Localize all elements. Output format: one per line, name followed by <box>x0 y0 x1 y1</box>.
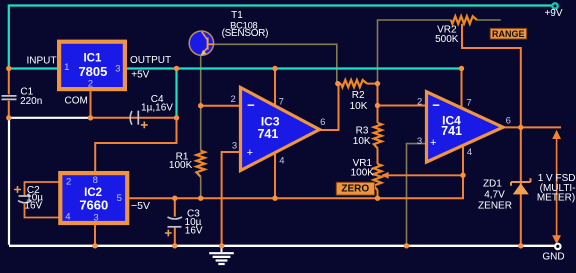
svg-text:3: 3 <box>232 141 237 152</box>
svg-text:2: 2 <box>417 96 422 107</box>
svg-text:741: 741 <box>441 124 462 138</box>
svg-text:3: 3 <box>115 63 120 74</box>
svg-text:7: 7 <box>279 97 284 108</box>
svg-text:ZENER: ZENER <box>478 201 512 212</box>
svg-text:100K: 100K <box>169 160 193 171</box>
svg-text:+5V: +5V <box>131 70 149 81</box>
svg-text:ZD1: ZD1 <box>483 179 502 190</box>
svg-text:741: 741 <box>257 127 278 141</box>
svg-text:OUTPUT: OUTPUT <box>130 55 171 66</box>
svg-text:10K: 10K <box>353 136 371 147</box>
svg-text:4,7V: 4,7V <box>484 189 505 200</box>
svg-text:−: − <box>247 97 255 112</box>
svg-text:R3: R3 <box>356 125 369 136</box>
svg-text:220n: 220n <box>20 96 42 107</box>
svg-text:6: 6 <box>320 117 325 128</box>
svg-text:2: 2 <box>88 79 93 90</box>
svg-text:(SENSOR): (SENSOR) <box>222 28 269 39</box>
svg-text:COM: COM <box>65 96 88 107</box>
svg-text:3: 3 <box>417 136 422 147</box>
svg-text:IC1: IC1 <box>83 53 102 65</box>
svg-text:16V: 16V <box>185 225 203 236</box>
svg-text:6: 6 <box>506 115 511 126</box>
svg-text:2: 2 <box>66 176 71 187</box>
svg-text:1: 1 <box>64 62 69 73</box>
svg-text:8: 8 <box>93 175 98 186</box>
svg-text:7: 7 <box>466 97 471 108</box>
svg-text:10K: 10K <box>350 101 368 112</box>
svg-text:16V: 16V <box>24 200 42 211</box>
svg-text:7660: 7660 <box>79 198 108 213</box>
svg-text:−: − <box>432 98 440 113</box>
svg-text:GND: GND <box>542 251 564 262</box>
svg-text:3: 3 <box>93 213 98 224</box>
svg-text:4: 4 <box>65 211 70 222</box>
svg-text:100K: 100K <box>351 167 375 178</box>
svg-text:4: 4 <box>467 147 472 158</box>
svg-text:4: 4 <box>279 155 284 166</box>
svg-text:7805: 7805 <box>78 64 107 79</box>
svg-text:+9V: +9V <box>544 8 562 19</box>
svg-text:T1: T1 <box>231 10 243 21</box>
svg-text:ZERO: ZERO <box>341 184 369 195</box>
svg-text:RANGE: RANGE <box>492 29 525 39</box>
svg-text:INPUT: INPUT <box>27 55 57 66</box>
svg-text:1µ,16V: 1µ,16V <box>141 102 173 113</box>
svg-text:+: + <box>430 137 436 149</box>
svg-text:R2: R2 <box>352 90 365 101</box>
svg-text:5: 5 <box>117 193 122 204</box>
svg-text:500K: 500K <box>435 34 459 45</box>
svg-text:METER): METER) <box>537 193 575 204</box>
svg-text:2: 2 <box>230 94 235 105</box>
svg-text:−5V: −5V <box>131 200 150 212</box>
svg-text:+: + <box>247 147 253 159</box>
